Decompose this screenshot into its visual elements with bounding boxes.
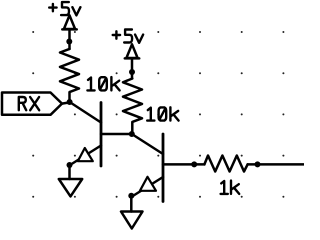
net tag RX [2, 93, 62, 115]
power arrow symbol 2 [125, 44, 139, 58]
transistor Q1 [70, 103, 132, 167]
label +5v (net 1) [49, 2, 80, 15]
wire RX tip to node [62, 102, 70, 103]
ground 1 [59, 179, 82, 196]
node dot right of R3 [255, 161, 261, 167]
wire node to Q2 base [132, 134, 163, 154]
label 10k (R2) [147, 107, 178, 120]
resistor R1 [60, 49, 79, 101]
label +5v (net 2) [113, 30, 143, 43]
power arrow symbol 1 [62, 15, 76, 29]
wire Q1 emitter to ground [68, 165, 71, 179]
label 10k (R1) [87, 77, 119, 90]
label 1k (R3) [221, 181, 240, 194]
resistor R2 [123, 79, 142, 134]
node Q1 collector / R2 junction dot [129, 131, 135, 137]
ground 2 [121, 212, 143, 229]
wire power1 to R1 [68, 29, 71, 49]
wire Q2 collector to R3 [194, 163, 204, 166]
wire R3 to right edge [248, 163, 304, 166]
transistor Q2 [132, 134, 194, 202]
node junction dot on power wire 1 [66, 39, 72, 45]
wire node to Q1 base [70, 102, 101, 123]
node Q1 emitter dot [67, 162, 73, 168]
node junction dot on power wire 2 [129, 69, 135, 75]
node Q2 emitter dot [128, 193, 134, 199]
wire Q2 emitter to ground [130, 196, 133, 212]
resistor R3 1k [204, 156, 247, 172]
wire power2 to R2 [131, 58, 134, 78]
grid dots [32, 31, 284, 198]
label RX text [19, 97, 39, 110]
node RX junction dot [67, 99, 73, 105]
node dot left of R3 [191, 161, 197, 167]
